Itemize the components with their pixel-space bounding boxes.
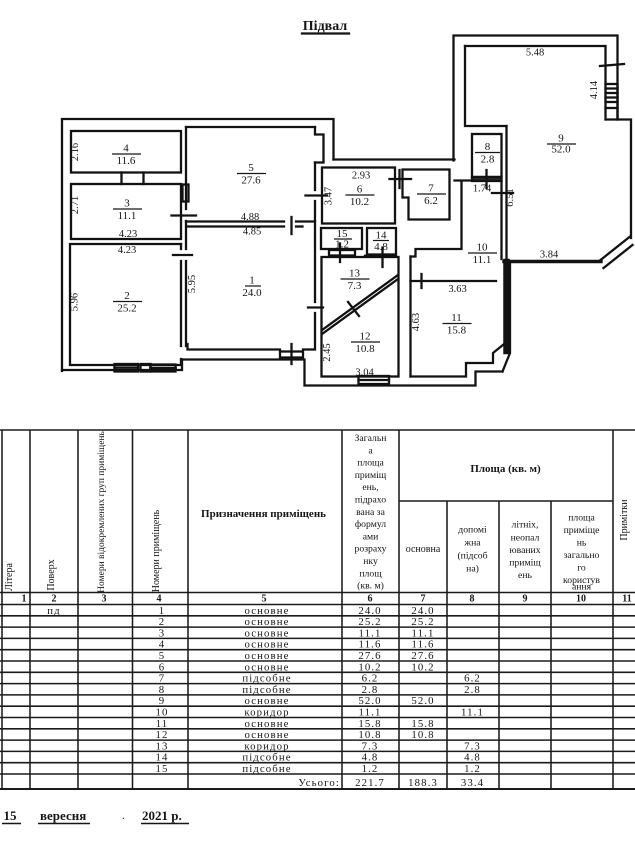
- svg-text:а: а: [368, 445, 373, 456]
- svg-text:нь: нь: [577, 538, 587, 549]
- svg-text:11.1: 11.1: [359, 627, 382, 639]
- svg-text:8: 8: [159, 684, 166, 696]
- room 12 threshold inner line: [359, 379, 390, 381]
- table top border: [0, 429, 635, 431]
- door tick rooms 6-7 horizontal: [390, 178, 412, 180]
- wire middle block top wall: [334, 158, 455, 160]
- stair diagonal line 1: [322, 275, 398, 330]
- svg-text:підсобне: підсобне: [242, 752, 291, 764]
- svg-text:1: 1: [22, 594, 27, 605]
- svg-text:2.45: 2.45: [322, 343, 333, 361]
- room 5 right wall notch: [315, 127, 324, 161]
- room 2 box: [70, 244, 181, 365]
- svg-text:7.3: 7.3: [348, 280, 362, 292]
- svg-text:10: 10: [576, 594, 586, 605]
- inner corner below notch: [315, 161, 324, 163]
- table col border 6: [341, 430, 343, 789]
- dim tick rooms 2-1 wall: [173, 254, 192, 256]
- svg-text:6: 6: [159, 661, 166, 673]
- svg-text:4.23: 4.23: [119, 229, 137, 240]
- outer wall SE chamfer of lower wing: [503, 262, 511, 372]
- svg-text:підрахо: підрахо: [355, 495, 386, 506]
- table col border 7: [398, 430, 400, 789]
- threshold room 2 bottom 3: [151, 365, 176, 372]
- tick below room 15: [339, 244, 341, 263]
- svg-text:6.2: 6.2: [424, 195, 438, 207]
- svg-text:підсобне: підсобне: [242, 763, 291, 775]
- row border 14: [0, 762, 635, 764]
- room 8 box: [472, 134, 502, 177]
- svg-text:5: 5: [159, 650, 166, 662]
- svg-text:11: 11: [451, 312, 462, 324]
- room 3 box: [71, 184, 181, 239]
- svg-text:27.6: 27.6: [241, 175, 261, 187]
- svg-text:нку: нку: [363, 556, 378, 567]
- svg-text:основне: основне: [244, 605, 289, 617]
- svg-text:15.8: 15.8: [358, 718, 381, 730]
- svg-text:2: 2: [124, 290, 130, 302]
- svg-text:11.6: 11.6: [412, 639, 435, 651]
- svg-text:7.3: 7.3: [362, 740, 379, 752]
- dim tick room 11 top: [420, 274, 422, 288]
- chamfer room 9 SE inner: [601, 237, 630, 260]
- svg-text:3.63: 3.63: [448, 284, 466, 295]
- svg-text:4.8: 4.8: [464, 752, 481, 764]
- row border 15: [0, 773, 635, 775]
- room 1 top wall right part: [296, 225, 303, 227]
- row border 13: [0, 750, 635, 752]
- svg-text:15: 15: [4, 808, 18, 823]
- svg-text:5.48: 5.48: [526, 48, 544, 59]
- svg-text:неопал: неопал: [511, 533, 540, 544]
- svg-text:25.2: 25.2: [411, 616, 434, 628]
- table col border 11: [612, 430, 614, 789]
- svg-text:приміще: приміще: [564, 525, 600, 536]
- svg-text:го: го: [577, 563, 586, 574]
- svg-text:188.3: 188.3: [408, 777, 438, 789]
- room 8 right wall lower: [500, 181, 502, 259]
- tick below room 14: [381, 248, 383, 268]
- svg-text:коридор: коридор: [244, 740, 289, 752]
- svg-text:2.71: 2.71: [70, 196, 81, 214]
- svg-text:10.8: 10.8: [355, 343, 375, 355]
- svg-text:юваних: юваних: [509, 545, 540, 556]
- table bottom border: [0, 788, 635, 790]
- room 1 bottom wall right part: [303, 348, 313, 350]
- door jamb rooms 4-3 right: [142, 173, 144, 185]
- svg-text:площа: площа: [568, 513, 595, 524]
- svg-text:10.2: 10.2: [411, 661, 434, 673]
- svg-text:4: 4: [157, 594, 162, 605]
- svg-text:основне: основне: [244, 718, 289, 730]
- row border 9: [0, 705, 635, 707]
- tick room 8 bottom: [485, 170, 487, 188]
- dim tick rooms 1-13 wall: [308, 306, 323, 308]
- svg-text:1: 1: [249, 275, 255, 287]
- wall below window right line: [616, 108, 618, 120]
- svg-text:5.96: 5.96: [70, 293, 81, 311]
- room 8 bottom hatched band: [472, 177, 502, 181]
- svg-text:основне: основне: [244, 639, 289, 651]
- table col border 8: [446, 501, 448, 789]
- svg-text:2.8: 2.8: [481, 154, 495, 166]
- row border 2: [0, 626, 635, 628]
- svg-text:25.2: 25.2: [358, 616, 381, 628]
- row border 10: [0, 717, 635, 719]
- room 5 bottom wall right part: [296, 220, 315, 222]
- row border 5: [0, 660, 635, 662]
- room 5 top wall inner: [186, 126, 315, 128]
- svg-text:12: 12: [360, 331, 371, 343]
- svg-text:10.2: 10.2: [358, 661, 381, 673]
- svg-text:25.2: 25.2: [117, 303, 136, 315]
- svg-text:52.0: 52.0: [358, 695, 381, 707]
- svg-text:ання: ання: [572, 582, 592, 593]
- svg-text:11.6: 11.6: [117, 155, 136, 167]
- room 1 bottom door sill: [280, 352, 303, 358]
- table col border 10: [550, 501, 552, 789]
- svg-text:15: 15: [156, 763, 169, 775]
- svg-text:10.8: 10.8: [411, 729, 434, 741]
- svg-text:(кв. м): (кв. м): [357, 581, 384, 592]
- svg-text:основне: основне: [244, 661, 289, 673]
- svg-text:Усього:: Усього:: [298, 777, 340, 789]
- svg-text:(підсоб: (підсоб: [457, 551, 487, 562]
- svg-text:13: 13: [349, 268, 361, 280]
- title underline: Pidval: [302, 32, 349, 34]
- table col border 9: [498, 501, 500, 789]
- svg-text:7.3: 7.3: [464, 740, 481, 752]
- svg-text:4.63: 4.63: [411, 313, 422, 331]
- row border 6: [0, 671, 635, 673]
- svg-text:Призначення приміщень: Призначення приміщень: [201, 508, 326, 520]
- svg-text:6.2: 6.2: [464, 673, 481, 685]
- svg-text:основне: основне: [244, 650, 289, 662]
- svg-text:11: 11: [156, 718, 169, 730]
- svg-text:1.2: 1.2: [464, 763, 481, 775]
- svg-text:ень: ень: [518, 570, 532, 581]
- svg-text:3.84: 3.84: [540, 250, 559, 261]
- table col border 2: [29, 430, 31, 789]
- svg-text:2.16: 2.16: [70, 143, 81, 161]
- svg-text:221.7: 221.7: [355, 777, 385, 789]
- svg-text:14: 14: [376, 230, 388, 242]
- svg-text:Загальн: Загальн: [355, 433, 387, 444]
- table col border 3: [77, 430, 79, 789]
- svg-text:вана за: вана за: [356, 507, 385, 518]
- room 5 left / room 1 left wall line: [185, 127, 187, 209]
- svg-text:підсобне: підсобне: [242, 673, 291, 685]
- svg-text:пд: пд: [47, 605, 60, 617]
- door tick rooms 6-7 vertical: [398, 170, 400, 188]
- svg-text:основне: основне: [244, 695, 289, 707]
- svg-text:2: 2: [52, 594, 57, 605]
- room 7 box: [403, 170, 450, 220]
- svg-text:2: 2: [159, 616, 166, 628]
- svg-text:3: 3: [102, 594, 107, 605]
- svg-text:4.8: 4.8: [362, 752, 379, 764]
- room 11 left wall: [409, 257, 411, 377]
- dim tick rooms 3-1 wall: [172, 214, 197, 216]
- svg-text:6: 6: [357, 184, 363, 196]
- window right wall frame: [606, 84, 618, 108]
- svg-text:27.6: 27.6: [358, 650, 381, 662]
- chamfer room 9 SE outer: [604, 245, 633, 268]
- svg-text:10.8: 10.8: [358, 729, 381, 741]
- svg-text:основне: основне: [244, 616, 289, 628]
- svg-text:24.0: 24.0: [358, 605, 381, 617]
- header bottom border: [0, 592, 635, 594]
- svg-text:2.93: 2.93: [352, 171, 370, 182]
- svg-text:1: 1: [159, 605, 166, 617]
- ploshcha merged cell bottom: [399, 500, 613, 502]
- svg-text:Примітки: Примітки: [619, 499, 630, 541]
- svg-text:13: 13: [156, 740, 169, 752]
- room 9 bottom wall: [504, 260, 601, 263]
- threshold 1 stripe: [115, 367, 139, 369]
- threshold room 2 bottom 1: [115, 364, 139, 372]
- svg-text:основна: основна: [406, 544, 441, 555]
- room 15 box: [321, 228, 362, 249]
- window rung 1: [606, 87, 618, 89]
- svg-text:7: 7: [421, 594, 426, 605]
- room 14 box: [367, 228, 396, 255]
- svg-text:5: 5: [262, 594, 267, 605]
- band below room 14: [365, 255, 396, 257]
- svg-text:6: 6: [368, 594, 373, 605]
- svg-text:4.14: 4.14: [589, 80, 600, 99]
- outer wall under room 1: [182, 360, 503, 386]
- room 10 left wall: [411, 181, 462, 257]
- row border 12: [0, 739, 635, 741]
- room 12 threshold dark: [359, 376, 390, 384]
- table col border 1: [1, 430, 3, 789]
- svg-text:4.23: 4.23: [118, 245, 136, 256]
- svg-text:14: 14: [156, 752, 169, 764]
- svg-text:3: 3: [159, 627, 166, 639]
- svg-text:ень,: ень,: [362, 482, 378, 493]
- threshold room 2 bottom 2: [141, 364, 151, 372]
- svg-text:Номери відокремлених груп прим: Номери відокремлених груп приміщень: [97, 431, 107, 593]
- svg-text:11.6: 11.6: [359, 639, 382, 651]
- svg-text:формул: формул: [355, 519, 386, 530]
- svg-text:приміщ: приміщ: [509, 558, 541, 569]
- room 6 box: [322, 168, 395, 224]
- svg-text:3: 3: [124, 198, 130, 210]
- svg-text:11: 11: [622, 594, 631, 605]
- svg-text:площ: площ: [359, 568, 382, 579]
- room 2 right wall mid: [180, 261, 182, 346]
- svg-text:на): на): [466, 564, 479, 575]
- svg-text:11.1: 11.1: [412, 627, 435, 639]
- svg-text:ами: ами: [363, 531, 379, 542]
- room 4 box: [71, 131, 181, 173]
- svg-text:2.8: 2.8: [464, 684, 481, 696]
- svg-text:2.8: 2.8: [362, 684, 379, 696]
- svg-text:підсобне: підсобне: [242, 684, 291, 696]
- svg-text:Номери приміщень: Номери приміщень: [151, 509, 162, 592]
- svg-text:11.1: 11.1: [473, 254, 492, 266]
- room 2 right wall upper: [180, 244, 182, 249]
- svg-text:4: 4: [159, 639, 166, 651]
- threshold 3 stripe: [151, 367, 176, 370]
- svg-text:.: .: [122, 810, 125, 822]
- svg-text:основне: основне: [244, 627, 289, 639]
- svg-text:5.95: 5.95: [187, 275, 198, 293]
- door tick room 1 bottom: [290, 344, 292, 364]
- svg-text:52.0: 52.0: [551, 144, 571, 156]
- svg-text:6.51: 6.51: [505, 188, 516, 206]
- svg-text:4.88: 4.88: [241, 212, 259, 223]
- svg-text:Літера: Літера: [4, 563, 15, 591]
- room 11 bottom and SE inner steps: [411, 345, 504, 377]
- wall segment left x186 mid: [185, 221, 187, 249]
- svg-text:24.0: 24.0: [411, 605, 434, 617]
- room 1 top wall left part: [188, 225, 285, 227]
- rooms 13-12 box: [322, 257, 399, 377]
- room 5 bottom wall left part: [186, 220, 284, 222]
- room 11 top wall: [411, 280, 497, 282]
- wall below window left line: [604, 108, 606, 120]
- outer wall left building bottom (room 2 wing): [62, 360, 182, 371]
- svg-text:11.1: 11.1: [359, 707, 382, 719]
- main vertical wall x315 mid: [314, 201, 316, 302]
- wall room9 west cavity line: [505, 126, 507, 260]
- svg-text:4.8: 4.8: [374, 241, 388, 253]
- room 5 right wall: [314, 163, 316, 191]
- room 1 bottom wall: [188, 344, 281, 350]
- room 10 top wall: [455, 179, 501, 181]
- pilaster right of room 3: [183, 185, 189, 202]
- row border 4: [0, 649, 635, 651]
- dim tick rooms 1-6 wall: [306, 194, 328, 196]
- dim tick room 9 west wall: [492, 192, 513, 194]
- table col border 5: [187, 430, 189, 789]
- svg-text:основне: основне: [244, 729, 289, 741]
- svg-text:3.04: 3.04: [355, 368, 374, 379]
- svg-text:1.2: 1.2: [335, 238, 349, 250]
- svg-text:15.8: 15.8: [411, 718, 434, 730]
- svg-text:приміщ: приміщ: [355, 470, 387, 481]
- svg-text:52.0: 52.0: [411, 695, 434, 707]
- svg-text:7: 7: [159, 673, 166, 685]
- svg-text:33.4: 33.4: [461, 777, 484, 789]
- svg-text:27.6: 27.6: [411, 650, 434, 662]
- thick wall band lower wing east: [503, 262, 510, 351]
- wall segment left x186 lower: [185, 261, 187, 346]
- outer wall left building top: [62, 119, 334, 371]
- svg-text:вересня: вересня: [40, 808, 86, 823]
- main vertical wall x315 lower: [314, 313, 316, 350]
- svg-text:8: 8: [485, 141, 491, 153]
- svg-text:2021 р.: 2021 р.: [142, 808, 182, 823]
- stair diagonal line 2: [322, 279, 398, 334]
- svg-text:літніх,: літніх,: [512, 520, 539, 531]
- svg-text:10.2: 10.2: [350, 196, 369, 208]
- svg-text:9: 9: [159, 695, 166, 707]
- svg-text:3.47: 3.47: [324, 187, 335, 205]
- door tick rooms 5-1: [290, 217, 292, 234]
- right building inner left wall: [465, 46, 507, 126]
- svg-text:1.74: 1.74: [473, 184, 492, 195]
- svg-text:11.1: 11.1: [118, 210, 137, 222]
- svg-text:загально: загально: [564, 550, 600, 561]
- svg-text:4.85: 4.85: [243, 227, 261, 238]
- table col border 4: [132, 430, 134, 789]
- svg-text:11.1: 11.1: [461, 707, 484, 719]
- stair cross tick: [348, 302, 359, 316]
- svg-text:1.2: 1.2: [362, 763, 379, 775]
- door jamb rooms 4-3 left: [120, 173, 122, 185]
- svg-text:Поверх: Поверх: [46, 559, 57, 590]
- svg-text:24.0: 24.0: [242, 287, 262, 299]
- svg-text:9: 9: [523, 594, 528, 605]
- svg-text:10: 10: [477, 242, 489, 254]
- window rung 3: [606, 96, 618, 98]
- svg-text:12: 12: [156, 729, 169, 741]
- row border 8: [0, 694, 635, 696]
- svg-text:6.2: 6.2: [362, 673, 379, 685]
- svg-text:допомі: допомі: [458, 525, 487, 536]
- svg-text:15.8: 15.8: [447, 325, 467, 337]
- right building outer right wall lower: [607, 120, 631, 239]
- svg-text:Площа (кв. м): Площа (кв. м): [470, 463, 541, 475]
- svg-text:10: 10: [156, 707, 169, 719]
- window rung 4: [606, 101, 618, 103]
- svg-text:7: 7: [428, 183, 434, 195]
- svg-text:8: 8: [470, 594, 475, 605]
- svg-text:коридор: коридор: [244, 707, 289, 719]
- svg-text:площа: площа: [357, 458, 384, 469]
- svg-text:5: 5: [248, 162, 254, 174]
- right building inner top line: [465, 46, 606, 84]
- row border 3: [0, 637, 635, 639]
- svg-text:4: 4: [123, 143, 129, 155]
- row border 7: [0, 683, 635, 685]
- tick right wall y65: [600, 64, 624, 66]
- row border 1: [0, 615, 635, 617]
- window rung 2: [606, 92, 618, 94]
- room 15 sill: [329, 250, 355, 256]
- svg-text:розраху: розраху: [355, 544, 387, 555]
- row border 11: [0, 728, 635, 730]
- svg-text:Підвал: Підвал: [303, 19, 348, 34]
- right building outer top and left: [454, 36, 618, 161]
- numbers row bottom border: [0, 604, 635, 606]
- svg-text:жна: жна: [463, 538, 481, 549]
